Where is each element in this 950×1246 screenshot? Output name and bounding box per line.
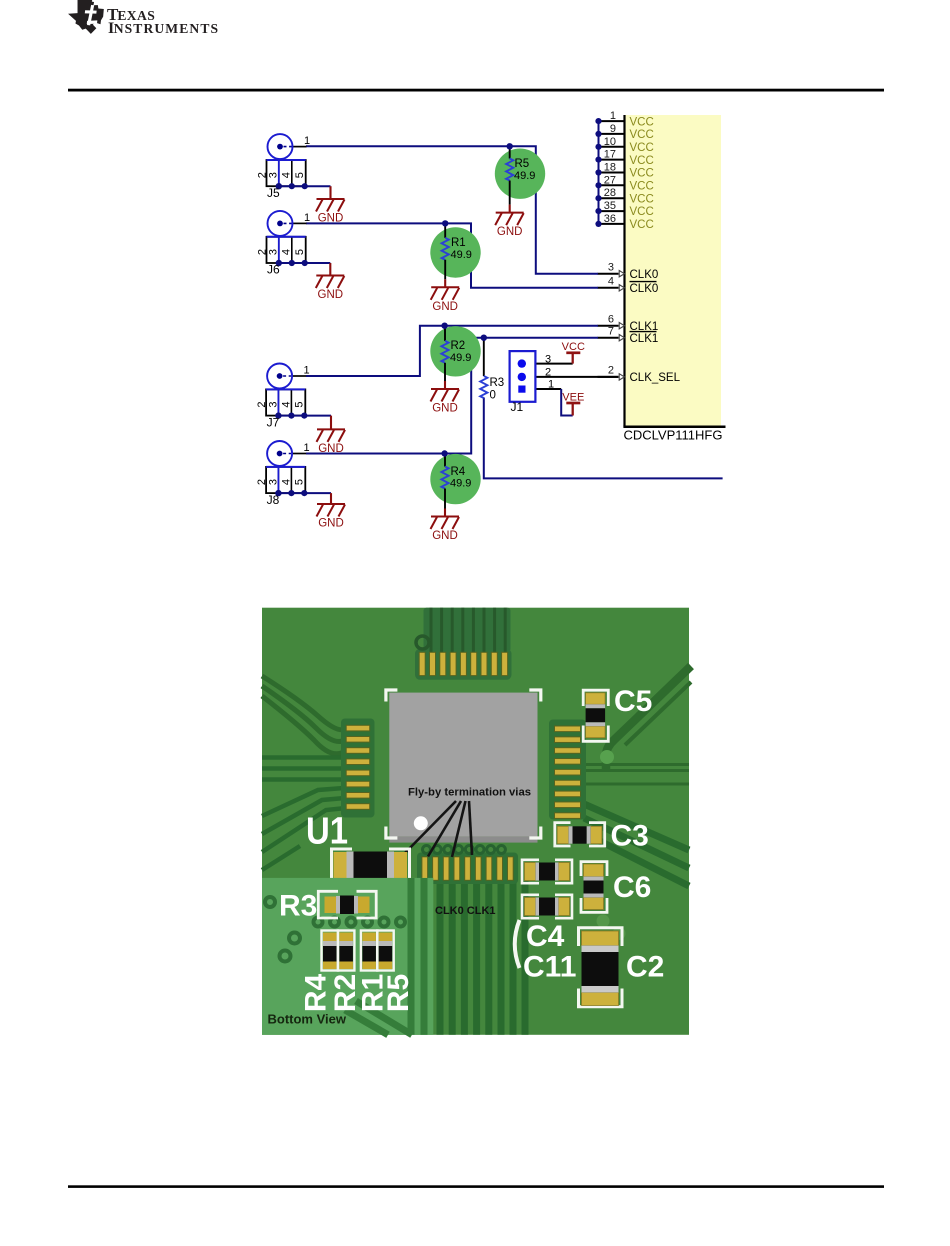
- IC pin name CLK1 inverted: [630, 332, 659, 345]
- svg-text:CDCLVP111HFG: CDCLVP111HFG: [624, 428, 723, 443]
- IC pin 18 (VCC): [595, 162, 653, 180]
- svg-text:U1: U1: [306, 811, 348, 853]
- IC pin 9 (VCC): [595, 123, 653, 141]
- svg-text:3: 3: [545, 353, 551, 365]
- connector J1: [510, 351, 619, 414]
- resistor R2 value 49.9: [441, 326, 471, 364]
- resistor R4 value 49.9: [441, 454, 471, 490]
- svg-text:7: 7: [608, 326, 614, 338]
- svg-text:36: 36: [604, 213, 616, 225]
- junction: [441, 323, 447, 329]
- pad group halos: [341, 719, 375, 818]
- svg-text:49.9: 49.9: [450, 478, 471, 490]
- IC pin 36 (VCC): [595, 213, 653, 231]
- connector J5: [257, 134, 310, 200]
- labels C4 C11: [523, 920, 576, 984]
- svg-text:1: 1: [304, 442, 310, 454]
- U1 top pads: [419, 652, 507, 675]
- svg-text:1: 1: [304, 365, 310, 377]
- white via dot on chip: [414, 816, 428, 830]
- svg-text:C4: C4: [526, 920, 565, 953]
- svg-text:49.9: 49.9: [451, 249, 472, 261]
- svg-text:1: 1: [548, 379, 554, 391]
- svg-text:C11: C11: [523, 951, 576, 984]
- capacitor C2: [579, 928, 665, 1007]
- svg-text:Fly-by termination vias: Fly-by termination vias: [408, 787, 531, 799]
- svg-text:1: 1: [304, 212, 310, 224]
- power symbol VEE: [562, 391, 584, 415]
- VCC pin rail: [598, 121, 600, 224]
- junction: [507, 143, 513, 149]
- PCB traces right horizontal: [586, 765, 689, 785]
- highlight circle for R1: [430, 227, 480, 277]
- PCB traces left horizontal: [262, 758, 345, 780]
- capacitor C6: [581, 862, 651, 913]
- highlight circle for R5: [495, 149, 545, 199]
- svg-text:R4: R4: [451, 466, 466, 478]
- IC pin 27 (VCC): [595, 174, 653, 192]
- svg-text:J8: J8: [267, 493, 280, 507]
- svg-text:4: 4: [608, 276, 614, 288]
- IC pin 17 (VCC): [595, 149, 653, 167]
- svg-text:R5: R5: [382, 974, 415, 1012]
- svg-text:17: 17: [604, 149, 616, 161]
- capacitor C5: [583, 685, 652, 741]
- svg-text:VCC: VCC: [630, 116, 654, 128]
- IC pin 28 (VCC): [595, 187, 653, 205]
- capacitor C11: [522, 895, 572, 918]
- Bottom View inset: [262, 878, 433, 1035]
- IC pin 35 (VCC): [595, 200, 653, 218]
- wire net CLK1#: J8 pin1 to R4 to IC pin7: [306, 338, 598, 454]
- svg-text:CLK0: CLK0: [630, 269, 659, 281]
- inset vias: [265, 897, 405, 962]
- svg-text:VCC: VCC: [630, 181, 654, 193]
- svg-text:0: 0: [490, 389, 496, 401]
- svg-text:VCC: VCC: [630, 155, 654, 167]
- svg-text:1: 1: [304, 135, 310, 147]
- svg-text:R1: R1: [451, 237, 466, 249]
- svg-text:CLK0: CLK0: [630, 283, 659, 295]
- svg-text:3: 3: [608, 262, 614, 274]
- svg-text:R3: R3: [490, 377, 505, 389]
- svg-text:CLK0 CLK1: CLK0 CLK1: [435, 905, 496, 917]
- highlight circle for R2: [430, 326, 480, 376]
- power symbol VCC: [562, 341, 585, 364]
- R1 bottom lead and GND: [431, 260, 460, 313]
- IC pin 10 (VCC): [595, 136, 653, 154]
- IC pin 7: [598, 326, 625, 341]
- svg-text:C3: C3: [611, 820, 649, 853]
- PCB traces top-left bundle: [262, 676, 345, 754]
- svg-text:J7: J7: [267, 415, 280, 429]
- PCB trace top-right wide diagonal: [606, 666, 691, 770]
- svg-text:10: 10: [604, 136, 616, 148]
- resistor R5 value 49.9: [506, 146, 535, 182]
- component below U1: [332, 849, 410, 882]
- svg-text:9: 9: [610, 123, 616, 135]
- connector J7: [256, 364, 309, 430]
- wire connector shield to GND: [305, 415, 331, 417]
- svg-text:VEE: VEE: [562, 391, 584, 403]
- svg-text:GND: GND: [318, 213, 344, 225]
- R5 bottom lead and GND: [495, 181, 524, 239]
- svg-text:VCC: VCC: [630, 219, 654, 231]
- junction: [442, 220, 448, 226]
- svg-text:35: 35: [604, 200, 616, 212]
- resistors R4 R2 R1 R5 on PCB: [322, 931, 394, 971]
- wire J1 pin1 to VEE: [561, 389, 573, 416]
- svg-text:28: 28: [604, 187, 616, 199]
- highlight circle for R4: [430, 454, 480, 504]
- svg-text:VCC: VCC: [630, 206, 654, 218]
- svg-text:GND: GND: [432, 301, 458, 313]
- ground symbol at J8: [317, 493, 346, 529]
- wire net CLK0#: J6 pin1 to R1 to IC pin4: [306, 223, 598, 287]
- svg-text:GND: GND: [432, 530, 458, 542]
- svg-text:C6: C6: [613, 871, 651, 904]
- svg-text:GND: GND: [318, 289, 344, 301]
- header rule: [68, 89, 884, 92]
- junction: [481, 335, 487, 341]
- wire net CLK1: J7 pin1 to R2 to IC pin6: [306, 326, 598, 376]
- U1 left pads: [346, 725, 370, 809]
- PCB photo: board background: [262, 608, 691, 1035]
- TI logo: [68, 0, 219, 37]
- svg-text:GND: GND: [432, 403, 458, 415]
- ground symbol at J6: [316, 263, 345, 301]
- svg-text:R5: R5: [515, 158, 530, 170]
- IC U? CDCLVP111HFG block: [623, 115, 725, 427]
- misc vias: [597, 750, 626, 940]
- svg-text:CLK_SEL: CLK_SEL: [630, 372, 681, 384]
- svg-text:R2: R2: [451, 340, 466, 352]
- ground symbol at J5: [316, 186, 345, 224]
- rotated labels R4 R2 R1 R5: [299, 974, 415, 1013]
- svg-text:6: 6: [608, 314, 614, 326]
- IC pin name CLK0 inverted: [630, 282, 659, 296]
- resistor R3 on PCB: [279, 890, 376, 923]
- wire net CLK0: J5 pin1 to R5 to IC pin3: [306, 146, 598, 273]
- svg-text:VCC: VCC: [630, 129, 654, 141]
- svg-text:2: 2: [545, 366, 551, 378]
- U1 bottom pads: [422, 857, 513, 881]
- svg-text:49.9: 49.9: [514, 170, 535, 182]
- capacitor C4: [522, 860, 572, 883]
- PCB traces bottom-right wide bundle: [582, 804, 689, 886]
- svg-text:C2: C2: [626, 951, 664, 984]
- junction: [441, 450, 447, 456]
- connector J8: [256, 441, 309, 507]
- svg-text:VCC: VCC: [630, 168, 654, 180]
- PCB top trace bundle: [415, 608, 512, 680]
- via row below chip: [423, 846, 506, 854]
- svg-text:J6: J6: [267, 263, 280, 277]
- IC pin 4: [598, 276, 625, 291]
- resistor R3 value 0: [480, 338, 504, 402]
- footer rule: [68, 1185, 884, 1188]
- U1 right pads: [555, 726, 581, 818]
- annotation arrows: [403, 801, 473, 857]
- capacitor C3: [555, 820, 649, 853]
- svg-text:49.9: 49.9: [450, 352, 471, 364]
- IC pin 1 (VCC): [595, 110, 653, 128]
- svg-text:VCC: VCC: [562, 341, 585, 353]
- connector J6: [257, 211, 310, 277]
- IC pin 2: [598, 365, 625, 380]
- svg-text:VCC: VCC: [630, 142, 654, 154]
- svg-text:INSTRUMENTS: INSTRUMENTS: [108, 20, 219, 37]
- svg-text:GND: GND: [318, 518, 344, 530]
- svg-text:2: 2: [608, 365, 614, 377]
- svg-text:R3: R3: [279, 890, 317, 923]
- svg-text:C5: C5: [614, 685, 652, 718]
- IC pin 3: [598, 262, 625, 277]
- ground symbol at J7: [317, 416, 346, 455]
- svg-text:Bottom View: Bottom View: [268, 1012, 347, 1027]
- svg-text:27: 27: [604, 174, 616, 186]
- chip U1 body: [389, 693, 537, 837]
- svg-text:1: 1: [610, 110, 616, 122]
- wire connector shield to GND: [305, 185, 331, 187]
- resistor R1 value 49.9: [442, 223, 472, 261]
- R4 bottom lead and GND: [431, 489, 460, 543]
- IC pin 6: [598, 314, 625, 329]
- svg-text:18: 18: [604, 162, 616, 174]
- wire connector shield to GND: [305, 492, 331, 494]
- svg-text:R4: R4: [299, 974, 332, 1013]
- wire connector shield to GND: [305, 262, 331, 264]
- svg-text:CLK1: CLK1: [630, 333, 659, 345]
- svg-text:GND: GND: [318, 443, 344, 455]
- PCB traces below bottom pads: [440, 881, 525, 1035]
- svg-text:GND: GND: [497, 226, 523, 238]
- chip corner silkscreen brackets: [386, 690, 541, 838]
- svg-text:VCC: VCC: [630, 193, 654, 205]
- svg-text:J5: J5: [267, 186, 280, 200]
- svg-text:J1: J1: [511, 400, 524, 414]
- R2 bottom lead and GND: [431, 363, 460, 415]
- wire from R3 bottom going right below IC: [484, 398, 723, 479]
- PCB traces bottom-left bundle: [262, 788, 346, 870]
- bracket for C4/C11: [515, 920, 520, 968]
